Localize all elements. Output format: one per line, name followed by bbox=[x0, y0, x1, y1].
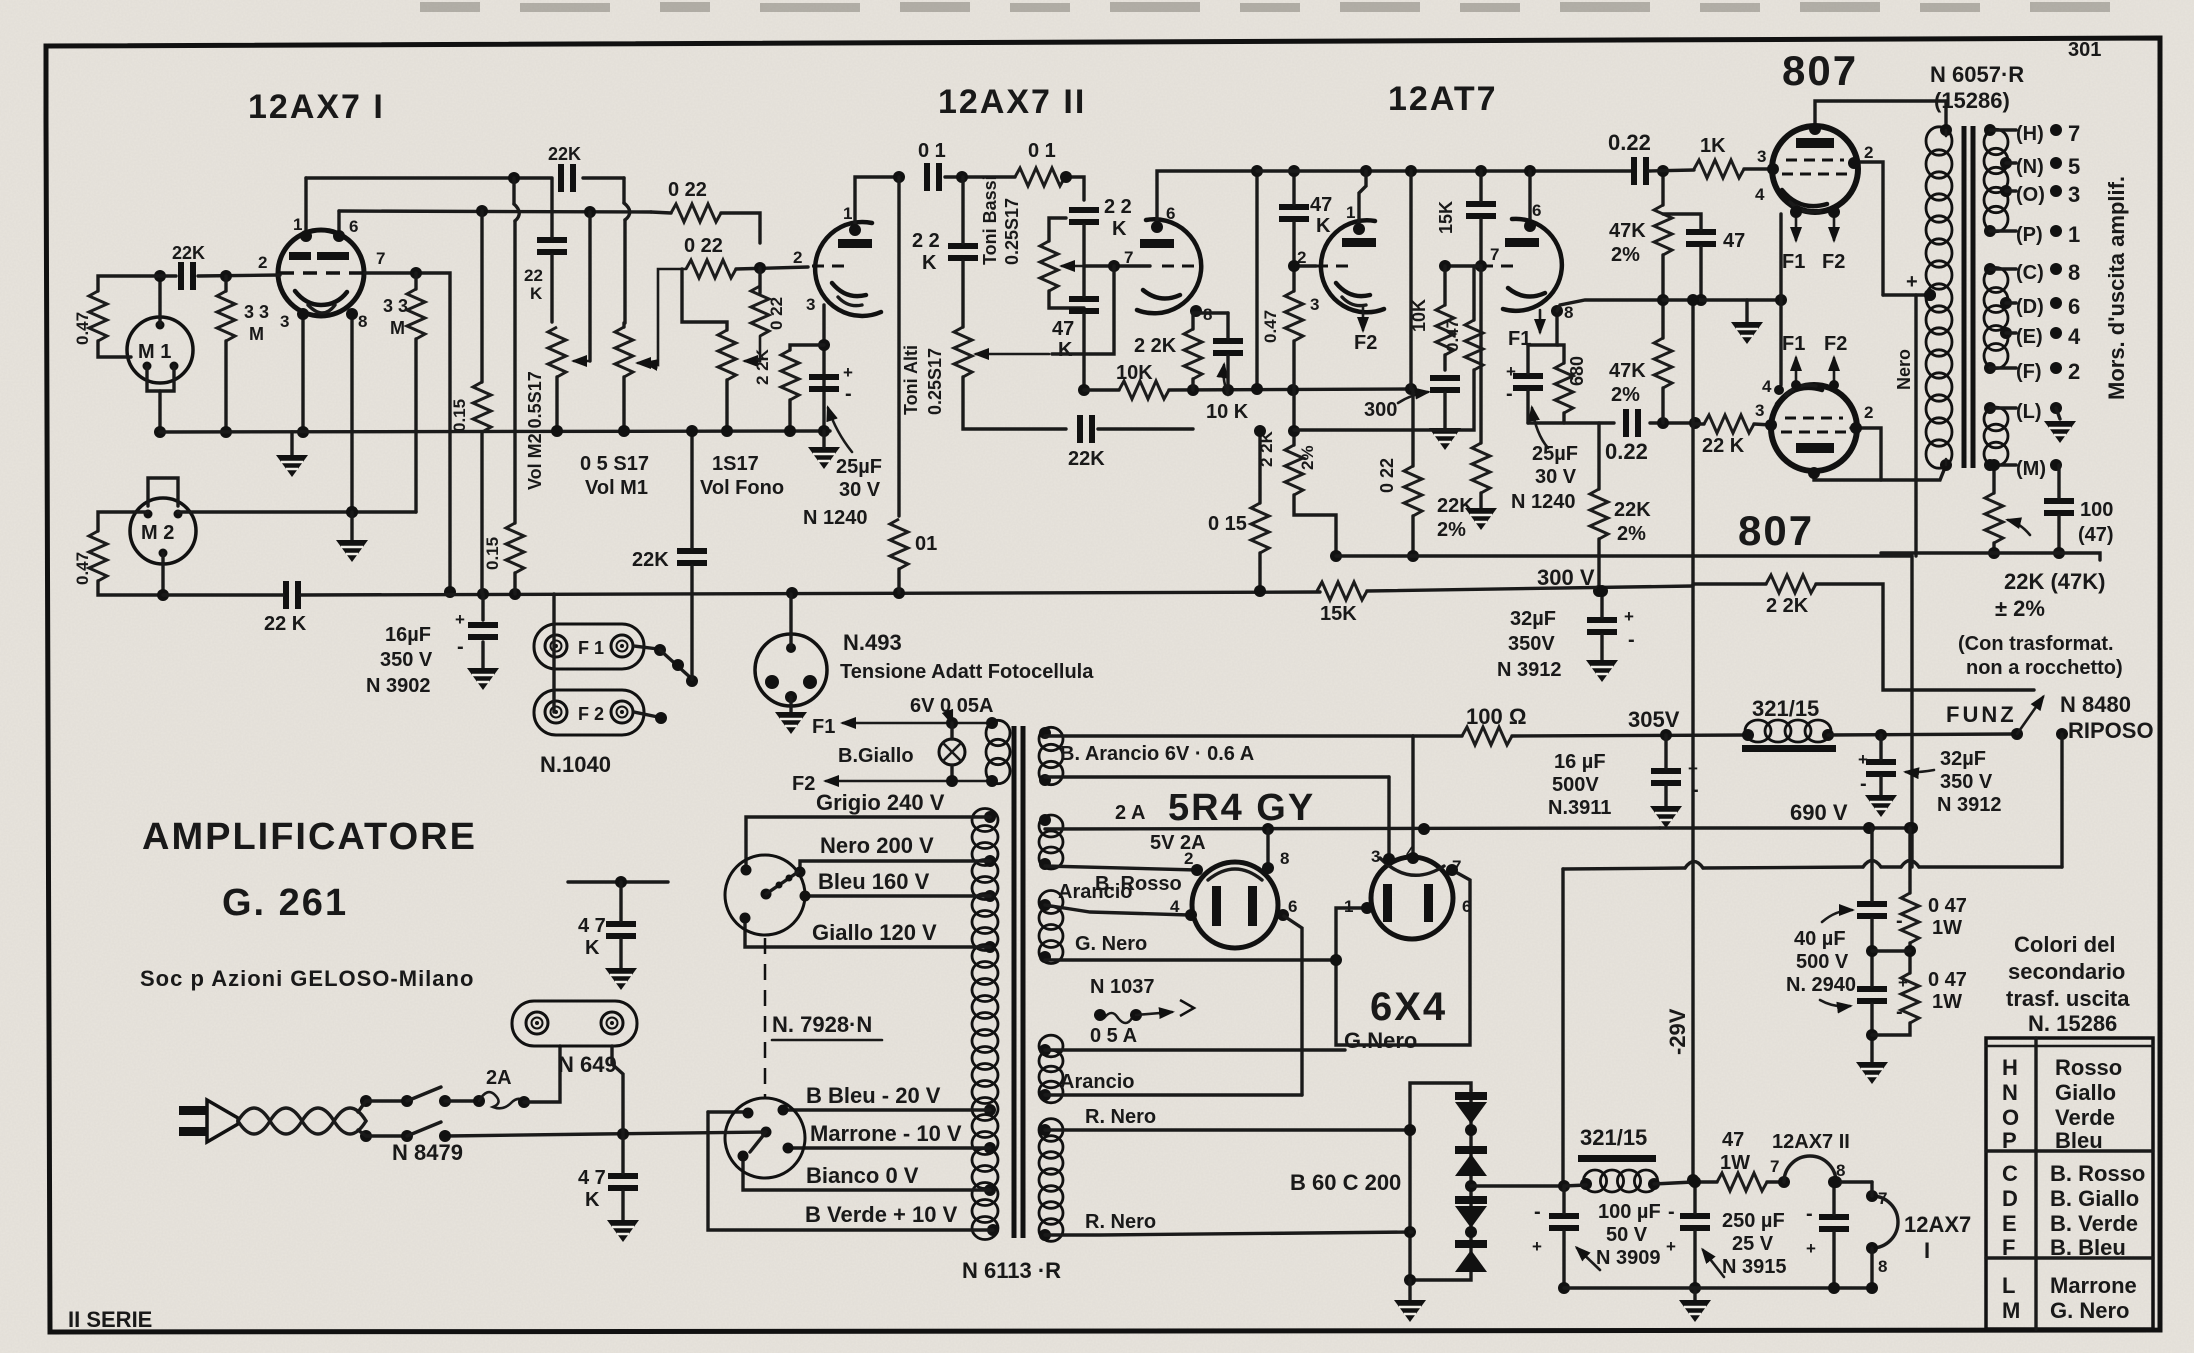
svg-text:Nero: Nero bbox=[1894, 349, 1914, 390]
svg-text:N.3911: N.3911 bbox=[1548, 797, 1611, 819]
tube V5 anode bar bbox=[1796, 443, 1834, 453]
terminal M bbox=[1990, 458, 2062, 480]
wire 47 cap bbox=[1663, 214, 1707, 306]
wire 0.47 V3b bbox=[1294, 266, 1474, 430]
svg-text:Mors. d'uscita amplif.: Mors. d'uscita amplif. bbox=[2104, 176, 2129, 400]
ground on y300 bbox=[1731, 300, 1763, 344]
svg-text:350V: 350V bbox=[1508, 633, 1555, 655]
svg-text:47: 47 bbox=[1310, 194, 1332, 216]
svg-text:25 V: 25 V bbox=[1732, 1233, 1774, 1255]
svg-text:22 K: 22 K bbox=[1702, 435, 1745, 457]
svg-text:N 3912: N 3912 bbox=[1497, 659, 1562, 681]
wire 0.22c to vol fono wiper bbox=[745, 268, 760, 361]
resistor 22K cathode V2b bbox=[1134, 329, 1202, 379]
wire 22K2 mid bbox=[1593, 423, 1605, 597]
wire R.Nero lower bbox=[1045, 1211, 1412, 1235]
primary tap Bleu 160V bbox=[805, 869, 996, 902]
svg-text:(C): (C) bbox=[2016, 262, 2044, 284]
label con trasformat non a rocchetto bbox=[1958, 633, 2123, 679]
svg-text:2 2: 2 2 bbox=[912, 230, 940, 252]
wire heater ground bus bbox=[1564, 1282, 1878, 1294]
label 40uF 500V N2940 bbox=[1786, 910, 1908, 1023]
wire M2 top line y512 bbox=[178, 506, 416, 518]
wire 40uF 047 network bbox=[1856, 822, 1916, 1084]
svg-text:-: - bbox=[1506, 383, 1513, 405]
svg-text:22K: 22K bbox=[1614, 499, 1651, 521]
wire screen feed vertical bbox=[1883, 271, 1936, 556]
svg-text:4: 4 bbox=[1755, 185, 1765, 204]
svg-text:2%: 2% bbox=[1611, 244, 1640, 266]
terminal H 7 bbox=[1990, 121, 2080, 146]
wire pin3 drop bbox=[297, 308, 309, 438]
svg-text:47K: 47K bbox=[1609, 220, 1646, 242]
wire 47K chain vertical bbox=[1657, 165, 1669, 423]
table rows CDEF bbox=[2002, 1161, 2145, 1260]
svg-text:47K: 47K bbox=[1609, 360, 1646, 382]
wire 690V bus bbox=[1660, 800, 1912, 834]
svg-text:2%: 2% bbox=[1437, 519, 1466, 541]
svg-text:22K: 22K bbox=[632, 549, 669, 571]
wire 22K cap to pin8 node bbox=[1098, 427, 1193, 430]
primary tap B Bleu -20V bbox=[708, 1083, 996, 1116]
wire pin6 riser bbox=[333, 211, 345, 242]
svg-text:22K: 22K bbox=[548, 144, 581, 164]
svg-text:F1: F1 bbox=[1782, 251, 1805, 273]
brand text Soc p Azioni GELOSO Milano bbox=[140, 966, 474, 991]
tube V4 pin numbers bbox=[1755, 143, 1873, 204]
svg-text:321/15: 321/15 bbox=[1752, 696, 1819, 721]
ground under pin8 node bbox=[336, 512, 368, 562]
wire 25uF2 connections bbox=[1526, 345, 1529, 423]
resistor 01 to bus bbox=[890, 519, 937, 569]
wire 6X4 pins bbox=[1336, 736, 1470, 1045]
voltage selector lower bbox=[725, 1098, 805, 1178]
wire 2.2K2 to 555 bus bbox=[1294, 495, 1342, 562]
wire toni bassi ends bbox=[1049, 218, 1084, 308]
svg-text:100: 100 bbox=[2080, 499, 2113, 521]
svg-text:N 6113 ·R: N 6113 ·R bbox=[962, 1258, 1061, 1283]
svg-text:M 1: M 1 bbox=[138, 341, 171, 363]
tube V1 12AX7 I envelope bbox=[278, 230, 364, 316]
label N1037 pickup bbox=[1090, 976, 1194, 1047]
svg-text:P: P bbox=[2002, 1128, 2017, 1153]
resistor 0.47 M2 bbox=[73, 531, 107, 585]
capacitor 47K mains lower bbox=[578, 1167, 638, 1211]
svg-text:1K: 1K bbox=[1700, 135, 1726, 157]
label 300V bbox=[1537, 565, 1595, 590]
svg-text:K: K bbox=[585, 1189, 600, 1211]
svg-text:6V 0 05A: 6V 0 05A bbox=[910, 695, 993, 717]
potentiometer Toni Alti 0.25S17 bbox=[901, 327, 1049, 415]
svg-text:680: 680 bbox=[1567, 356, 1587, 386]
svg-text:M: M bbox=[249, 324, 264, 344]
svg-text:12AX7 I: 12AX7 I bbox=[248, 88, 385, 126]
page number 301 bbox=[2068, 39, 2101, 61]
svg-text:-: - bbox=[457, 636, 464, 658]
wire toni alti bottom to 22K cap bbox=[963, 377, 1066, 429]
wire feedback line y584 bbox=[1693, 584, 2034, 690]
resistor 0.15 second bbox=[483, 523, 524, 573]
wire 1294 chain bbox=[1288, 165, 1300, 445]
svg-text:1: 1 bbox=[2068, 222, 2080, 247]
ground under 22K2pct bbox=[1465, 266, 1497, 530]
svg-text:0.25S17: 0.25S17 bbox=[1002, 198, 1022, 265]
wire M1 top to grid line bbox=[154, 270, 166, 325]
svg-text:0 5 A: 0 5 A bbox=[1090, 1025, 1137, 1047]
switch fono selector bbox=[634, 644, 698, 724]
svg-text:30 V: 30 V bbox=[839, 479, 881, 501]
svg-text:2: 2 bbox=[2068, 359, 2080, 384]
tube V3a triode arc bbox=[1321, 220, 1384, 312]
svg-text:2 2: 2 2 bbox=[1104, 196, 1132, 218]
svg-text:N. 7928·N: N. 7928·N bbox=[772, 1012, 872, 1037]
svg-text:N.1040: N.1040 bbox=[540, 752, 611, 777]
capacitor 32uF 350V N3912 right bbox=[1858, 748, 2002, 816]
svg-text:2: 2 bbox=[1864, 403, 1873, 422]
svg-text:N 3912: N 3912 bbox=[1937, 794, 2002, 816]
svg-text:Verde: Verde bbox=[2055, 1105, 2115, 1130]
wire 22K to pin3 lower bbox=[1695, 419, 1777, 431]
primary tap B Verde +10V bbox=[708, 1112, 999, 1236]
wire screen bus y390 bbox=[1084, 383, 1417, 396]
svg-text:F2: F2 bbox=[1824, 333, 1847, 355]
tube V1 pin numbers bbox=[258, 215, 385, 331]
svg-text:32µF: 32µF bbox=[1510, 608, 1556, 630]
label B60C200 bbox=[1290, 1170, 1401, 1195]
svg-text:-: - bbox=[1534, 1201, 1541, 1223]
wire B.Rosso line bbox=[1045, 866, 1197, 895]
svg-text:C: C bbox=[2002, 1161, 2018, 1186]
svg-text:G. Nero: G. Nero bbox=[2050, 1298, 2129, 1323]
resistor 680 bbox=[1555, 356, 1587, 413]
wire 680 + pin8 bbox=[1528, 305, 1564, 423]
svg-text:0 15: 0 15 bbox=[1208, 513, 1247, 535]
svg-text:+: + bbox=[1688, 759, 1698, 778]
svg-text:807: 807 bbox=[1738, 507, 1814, 554]
wire V3a pin1 riser bbox=[1353, 171, 1366, 235]
svg-text:100 µF: 100 µF bbox=[1598, 1201, 1661, 1223]
svg-text:5V 2A: 5V 2A bbox=[1150, 832, 1206, 854]
svg-text:+: + bbox=[1906, 271, 1918, 293]
wire 22K fono cap bbox=[686, 425, 698, 679]
svg-text:2%: 2% bbox=[1611, 384, 1640, 406]
svg-text:Soc p Azioni GELOSO-Milano: Soc p Azioni GELOSO-Milano bbox=[140, 966, 474, 991]
capacitor 47K coupling bbox=[1279, 194, 1332, 237]
label N 6113 R bbox=[962, 1258, 1061, 1283]
svg-text:10K: 10K bbox=[1409, 299, 1429, 332]
svg-text:B Bleu - 20 V: B Bleu - 20 V bbox=[806, 1083, 941, 1108]
svg-text:N. 15286: N. 15286 bbox=[2028, 1011, 2117, 1036]
secondary winding W3 arancio gnero bbox=[1039, 891, 1063, 964]
svg-text:N 649: N 649 bbox=[558, 1052, 617, 1077]
svg-text:3: 3 bbox=[1755, 401, 1764, 420]
svg-text:F1: F1 bbox=[812, 716, 835, 738]
output transformer primary winding bbox=[1924, 124, 1952, 471]
svg-text:trasf. uscita: trasf. uscita bbox=[2006, 986, 2130, 1011]
svg-text:3: 3 bbox=[280, 312, 289, 331]
primary tap Giallo 120V bbox=[745, 920, 996, 953]
svg-text:+: + bbox=[1624, 607, 1634, 626]
label F1 arrow heater bbox=[812, 716, 990, 738]
svg-text:F 1: F 1 bbox=[578, 638, 604, 658]
resistor 0.47 grid bbox=[1261, 291, 1303, 343]
wire photocell to bus bbox=[789, 594, 792, 648]
table rows HNOP bbox=[2002, 1055, 2122, 1153]
wire pin7 node bbox=[1052, 260, 1150, 354]
capacitor 250uF 25V N3915 bbox=[1666, 1201, 1787, 1278]
svg-text:H: H bbox=[2002, 1055, 2018, 1080]
svg-text:Arancio: Arancio bbox=[1058, 881, 1132, 903]
svg-text:secondario: secondario bbox=[2008, 959, 2125, 984]
wire 899 lower bbox=[897, 569, 900, 593]
svg-text:(Con trasformat.: (Con trasformat. bbox=[1958, 633, 2114, 655]
wire V2b pin6 riser bbox=[1151, 171, 1257, 233]
label N.7928-N bbox=[772, 1012, 882, 1040]
potentiometer 22K 47K feedback bbox=[1985, 493, 2030, 543]
svg-text:0 22: 0 22 bbox=[684, 235, 723, 257]
svg-text:M: M bbox=[390, 318, 405, 338]
svg-text:8: 8 bbox=[1878, 1257, 1887, 1276]
svg-text:0.15: 0.15 bbox=[483, 537, 502, 570]
svg-text:(M): (M) bbox=[2016, 458, 2046, 480]
resistor 2.2K 2pct bbox=[1257, 430, 1317, 495]
svg-text:Bleu 160 V: Bleu 160 V bbox=[818, 869, 930, 894]
wire pin7 node junction bbox=[1439, 260, 1487, 272]
svg-text:+: + bbox=[1806, 1239, 1816, 1258]
svg-text:Colori del: Colori del bbox=[2014, 932, 2115, 957]
svg-text:+: + bbox=[1532, 1237, 1542, 1256]
svg-text:B. Verde: B. Verde bbox=[2050, 1211, 2138, 1236]
bridge output wire bbox=[1471, 1184, 1564, 1187]
svg-text:K: K bbox=[922, 252, 937, 274]
svg-text:3 3: 3 3 bbox=[383, 296, 408, 316]
resistor 0.47 V3b bbox=[1443, 319, 1483, 370]
tube V2a cathode arc bbox=[832, 283, 866, 306]
svg-text:Rosso: Rosso bbox=[2055, 1055, 2122, 1080]
tube V1 grid bars bbox=[289, 252, 349, 260]
wire 552 riser bbox=[550, 178, 553, 322]
svg-text:F1: F1 bbox=[1782, 333, 1805, 355]
resistor 47K 2pct lower bbox=[1609, 338, 1672, 406]
svg-text:-: - bbox=[1668, 1201, 1675, 1223]
tube V3b dashed grid line bbox=[1481, 265, 1519, 268]
svg-text:non a rocchetto): non a rocchetto) bbox=[1966, 657, 2123, 679]
output transformer secondary group LM bbox=[1984, 402, 2008, 471]
fuse holder N649 bbox=[512, 1001, 637, 1077]
ground photocell bbox=[775, 697, 807, 734]
wire 100ohm to 305V bbox=[1413, 707, 1748, 741]
wire V2b pin8 bbox=[1190, 305, 1228, 317]
svg-text:0 1: 0 1 bbox=[918, 140, 946, 162]
svg-text:5R4 GY: 5R4 GY bbox=[1168, 787, 1315, 829]
wire mains upper to N649 bbox=[524, 1046, 560, 1102]
svg-text:± 2%: ± 2% bbox=[1995, 596, 2045, 621]
svg-text:1: 1 bbox=[293, 215, 302, 234]
svg-text:305V: 305V bbox=[1628, 707, 1680, 732]
wire top bus y171 bbox=[1257, 165, 1631, 177]
svg-text:F: F bbox=[2002, 1235, 2015, 1260]
svg-text:-: - bbox=[1806, 1203, 1813, 1225]
capacitor 47K branch bbox=[1052, 296, 1099, 361]
capacitor 22K M2 series bbox=[264, 581, 307, 635]
wire pin2 screen drop bbox=[1848, 157, 1883, 295]
svg-text:N 3902: N 3902 bbox=[366, 675, 431, 697]
output transformer label N6057-R bbox=[1930, 62, 2024, 113]
wire 47 1W bbox=[1693, 1176, 1790, 1188]
choke 321/15 upper bbox=[1742, 696, 1836, 752]
tube V3a pin numbers bbox=[1297, 203, 1355, 314]
svg-text:B. Rosso: B. Rosso bbox=[2050, 1161, 2145, 1186]
svg-text:8: 8 bbox=[2068, 260, 2080, 285]
svg-text:01: 01 bbox=[915, 533, 937, 555]
label N493 tensione bbox=[840, 630, 1094, 683]
svg-text:Toni Alti: Toni Alti bbox=[901, 345, 921, 415]
svg-text:AMPLIFICATORE: AMPLIFICATORE bbox=[142, 816, 477, 858]
svg-text:1: 1 bbox=[843, 204, 852, 223]
potentiometer Vol M2 0.5S17 bbox=[525, 327, 590, 490]
wire 47K lower bbox=[607, 1134, 639, 1242]
wire 1912 drop to 690 bus bbox=[1906, 556, 1918, 867]
choke 321/15 lower bbox=[1578, 1125, 1660, 1192]
svg-text:0.22: 0.22 bbox=[1608, 130, 1651, 155]
svg-text:0.47: 0.47 bbox=[73, 312, 92, 345]
svg-text:2 A: 2 A bbox=[1115, 802, 1145, 824]
svg-text:300: 300 bbox=[1364, 399, 1397, 421]
terminal C 8 bbox=[1990, 260, 2080, 285]
resistor 0.47 M1 bbox=[73, 291, 107, 345]
svg-text:F 2: F 2 bbox=[578, 704, 604, 724]
svg-text:(47): (47) bbox=[2078, 524, 2114, 546]
svg-text:I: I bbox=[1924, 1238, 1930, 1263]
wire Arancio plate 1 bbox=[1045, 881, 1189, 915]
capacitor 40uF 500V N2940 upper bbox=[1857, 901, 1887, 919]
svg-text:(H): (H) bbox=[2016, 123, 2044, 145]
tube V4 cathode arc bbox=[1782, 190, 1827, 212]
capacitor 01 coupling bbox=[918, 140, 946, 191]
tube V7 6X4 envelope bbox=[1371, 857, 1453, 939]
svg-text:FUNZ: FUNZ bbox=[1946, 702, 2017, 727]
tube V5 807 lower envelope bbox=[1771, 385, 1857, 471]
svg-text:15K: 15K bbox=[1436, 201, 1456, 234]
svg-text:K: K bbox=[1112, 218, 1127, 240]
svg-text:G. Nero: G. Nero bbox=[1075, 933, 1147, 955]
wire 47K upper bbox=[568, 876, 668, 990]
wire 2.2K cathode connections bbox=[784, 345, 824, 437]
label -29V bbox=[1665, 1008, 1690, 1055]
capacitor 22K M1 input bbox=[172, 243, 205, 290]
svg-text:-: - bbox=[1628, 629, 1635, 651]
svg-text:15K: 15K bbox=[1320, 603, 1357, 625]
svg-text:22K (47K): 22K (47K) bbox=[2004, 569, 2105, 594]
svg-text:3: 3 bbox=[806, 295, 815, 314]
label N 8479 bbox=[392, 1140, 463, 1165]
secondary winding W5 RNero bbox=[1039, 1119, 1063, 1242]
svg-text:100 Ω: 100 Ω bbox=[1466, 704, 1526, 729]
wire R.Nero upper bbox=[1045, 1106, 1410, 1130]
capacitor 47K mains upper bbox=[578, 915, 636, 959]
svg-text:807: 807 bbox=[1782, 47, 1858, 94]
svg-text:47: 47 bbox=[1723, 230, 1745, 252]
wire 963 branch bbox=[961, 177, 964, 327]
wire 1257 riser plate V2b bbox=[1251, 165, 1263, 395]
svg-text:7: 7 bbox=[376, 249, 385, 268]
svg-text:M: M bbox=[2002, 1298, 2020, 1323]
svg-text:O: O bbox=[2002, 1105, 2019, 1130]
svg-text:N 6057·R: N 6057·R bbox=[1930, 62, 2024, 87]
svg-text:Arancio: Arancio bbox=[1060, 1071, 1134, 1093]
resistor 1K grid stopper upper 807 bbox=[1694, 135, 1744, 178]
svg-text:16 µF: 16 µF bbox=[1554, 751, 1606, 773]
svg-text:250 µF: 250 µF bbox=[1722, 1210, 1785, 1232]
svg-text:Bleu: Bleu bbox=[2055, 1128, 2103, 1153]
arrows F1 F2 under upper 807 bbox=[1782, 206, 1845, 273]
wire choke to FUNZ bbox=[1828, 729, 2014, 741]
svg-text:0 1: 0 1 bbox=[1028, 140, 1056, 162]
svg-text:350 V: 350 V bbox=[1940, 771, 1993, 793]
heater arc 12AX7 I bbox=[1866, 1182, 1971, 1288]
wire 1K to pin3 bbox=[1649, 163, 1779, 175]
svg-text:0.47: 0.47 bbox=[1443, 319, 1462, 352]
wire pin6 bus y211 bbox=[339, 205, 651, 218]
svg-text:D: D bbox=[2002, 1186, 2018, 1211]
svg-text:0 22: 0 22 bbox=[767, 297, 786, 330]
svg-text:F2: F2 bbox=[1822, 251, 1845, 273]
tube V3b cathode arc bbox=[1508, 288, 1545, 297]
wire top bus y178 bbox=[306, 172, 624, 184]
wire y423 grid line lower 807 bbox=[1528, 417, 1701, 429]
bridge rail right bbox=[1465, 1090, 1477, 1262]
svg-text:+: + bbox=[1858, 750, 1868, 769]
svg-text:Nero 200 V: Nero 200 V bbox=[820, 833, 934, 858]
svg-text:N 1037: N 1037 bbox=[1090, 976, 1155, 998]
lamp pilot bbox=[939, 723, 965, 781]
svg-text:6: 6 bbox=[1532, 201, 1541, 220]
svg-text:M 2: M 2 bbox=[141, 522, 174, 544]
terminal E 4 bbox=[2006, 324, 2081, 349]
resistor 0.22 mid bbox=[1377, 458, 1422, 516]
input connector M2 bbox=[130, 498, 196, 564]
wire 5R4 pins bbox=[1185, 829, 1289, 921]
tube V6 5R4GY title bbox=[1168, 787, 1315, 829]
svg-text:690 V: 690 V bbox=[1790, 800, 1848, 825]
resistor 2.2K feedback bbox=[1766, 575, 1816, 617]
capacitor 25uF 30V N1240 first bbox=[809, 363, 853, 405]
capacitor 15K branch bbox=[1436, 201, 1496, 234]
tube V7 filament bars bbox=[1383, 884, 1433, 922]
wire lower 807 plate to primary bottom bbox=[1808, 465, 1946, 480]
svg-text:6: 6 bbox=[2068, 294, 2080, 319]
capacitor 47 bypass bbox=[1686, 229, 1745, 252]
primary main winding bbox=[972, 809, 998, 1240]
tube V3a dashed grid line bbox=[1316, 265, 1354, 268]
svg-text:(L): (L) bbox=[2016, 401, 2042, 423]
wire 1693 vertical bbox=[1687, 294, 1699, 1186]
wire Arancio 2 bbox=[1045, 1071, 1302, 1095]
svg-text:N 8479: N 8479 bbox=[392, 1140, 463, 1165]
primary pilot winding 6V bbox=[986, 717, 1010, 787]
svg-text:1S17: 1S17 bbox=[712, 453, 759, 475]
resistor 22K 2pct mid bbox=[1590, 489, 1651, 545]
svg-text:N. 2940: N. 2940 bbox=[1786, 974, 1856, 996]
ground under 300 cap bbox=[1429, 393, 1461, 450]
ground 32uF left bbox=[1586, 585, 1618, 682]
wire bus y553 feedback bbox=[1881, 553, 2100, 560]
resistor 22K 2pct left bbox=[1437, 443, 1490, 541]
tube V2b dashed grid line bbox=[1162, 265, 1200, 268]
arrow F1 cathode V3b bbox=[1508, 310, 1540, 350]
svg-text:12AT7: 12AT7 bbox=[1388, 80, 1498, 118]
svg-text:8: 8 bbox=[1280, 849, 1289, 868]
